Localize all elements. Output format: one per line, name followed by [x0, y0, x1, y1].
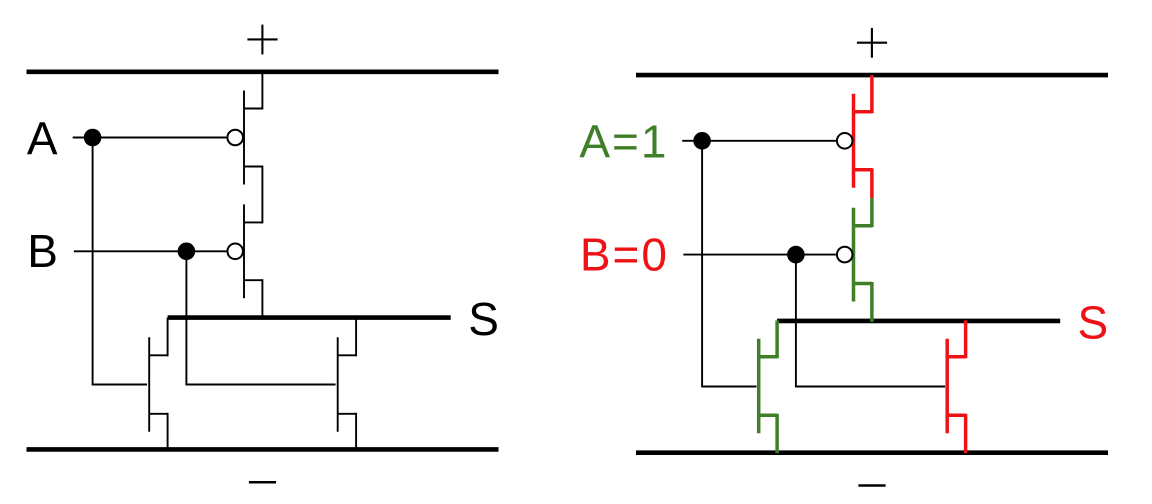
- node S rail (right): [777, 319, 1060, 324]
- wire: A down to Q3 gate: [93, 138, 147, 385]
- junction dot on B (right): [787, 246, 805, 264]
- svg-text:B: B: [27, 225, 58, 277]
- wire: S rail to Q3 drain: [167, 318, 169, 357]
- transistor Q7 NMOS on, gate A (green): [759, 339, 777, 434]
- transistor Q8 NMOS off, gate B (red): [947, 339, 965, 434]
- wire: + rail to Q1 drain: [261, 72, 263, 110]
- wire: Q4 source to ground rail: [355, 413, 357, 450]
- node S rail (left): [168, 315, 451, 320]
- wire: Q6 source to S rail (green): [870, 282, 874, 322]
- wire: Q3 source to ground rail: [167, 413, 169, 450]
- wire: S rail to Q4 drain: [355, 318, 357, 357]
- svg-text:B=0: B=0: [580, 229, 669, 281]
- wire: input B to Q6 gate bubble: [683, 254, 836, 256]
- wire: Q7 source to ground rail (green): [775, 414, 779, 453]
- svg-text:S: S: [1078, 296, 1109, 348]
- supply label + (left circuit): [247, 25, 277, 55]
- transistor Q2 PMOS, gate B (left): [227, 204, 262, 298]
- wire: Q5 source (red half): [870, 168, 874, 198]
- ground label - (right): [858, 484, 885, 487]
- svg-text:A=1: A=1: [579, 116, 668, 168]
- wire: S rail to Q7 drain (green): [775, 320, 779, 358]
- wire: A down to Q7 gate: [702, 141, 756, 387]
- ground rail - (right): [636, 450, 1108, 455]
- transistor Q5 PMOS off, gate A (red): [837, 94, 872, 188]
- wire: input A to Q1 gate bubble: [73, 137, 227, 139]
- wire: B down to Q8 gate: [796, 255, 945, 387]
- wire: Q6 drain (green half): [870, 198, 874, 227]
- svg-text:S: S: [468, 293, 499, 345]
- junction dot on A (right): [693, 132, 711, 150]
- wire: + rail to Q5 drain (red, logic 0 side): [870, 75, 874, 113]
- transistor Q6 PMOS on, gate B (green): [837, 208, 872, 302]
- ground rail - (left): [27, 447, 499, 452]
- junction dot on A: [84, 129, 102, 147]
- svg-text:A: A: [27, 112, 58, 164]
- wire: B down to Q4 gate: [186, 251, 335, 384]
- wire: Q1 source to Q2 drain: [261, 166, 263, 224]
- transistor Q4 NMOS, gate B (left): [338, 337, 356, 432]
- ground label - (left): [249, 481, 276, 484]
- junction dot on B: [178, 243, 196, 261]
- wire: Q2 source to S rail: [261, 279, 263, 317]
- wire: Q8 source to ground rail (red): [964, 414, 968, 453]
- transistor Q3 NMOS, gate A (left): [149, 337, 167, 432]
- wire: S rail to Q8 drain (red): [964, 320, 968, 358]
- transistor Q1 PMOS, gate A (left): [227, 91, 262, 185]
- supply label + (right circuit): [857, 28, 887, 58]
- power rail + (right): [636, 73, 1108, 78]
- wire: input A to Q5 gate bubble: [682, 140, 836, 142]
- wire: input B to Q2 gate bubble: [74, 250, 227, 252]
- power rail + (left): [27, 70, 499, 75]
